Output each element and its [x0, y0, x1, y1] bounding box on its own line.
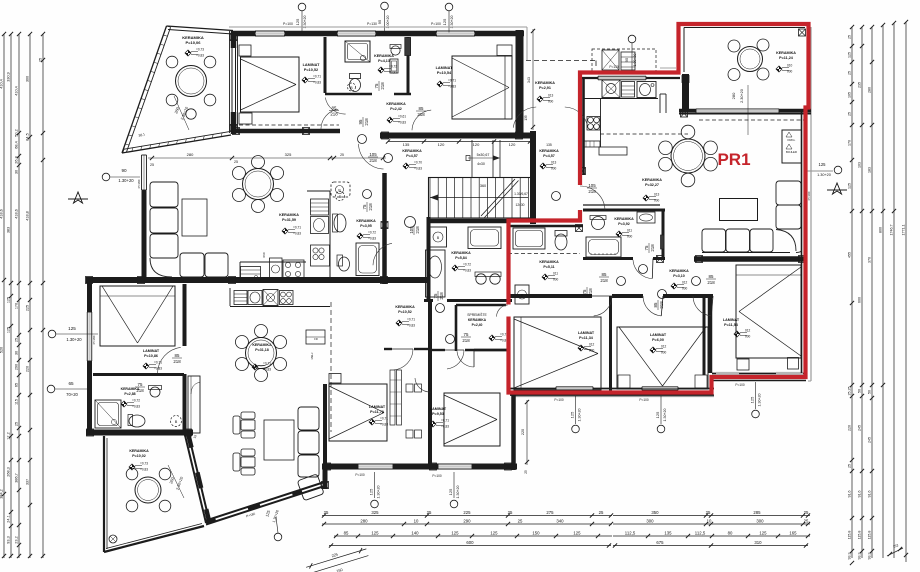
lu basin — [334, 214, 346, 232]
svg-text:520: 520 — [0, 347, 4, 353]
BL kitchen counter — [230, 306, 330, 308]
svg-text:P=2,91: P=2,91 — [539, 86, 551, 90]
door arc storage-red — [497, 305, 508, 317]
hatch — [303, 128, 310, 135]
stove — [602, 80, 620, 98]
tub left bath — [468, 227, 501, 249]
radiator dark — [405, 38, 411, 56]
svg-text:011: 011 — [627, 229, 632, 233]
svg-text:012: 012 — [589, 343, 595, 347]
BL bedroom bed — [100, 286, 175, 346]
BM bed2 elev — [430, 419, 449, 429]
svg-text:060: 060 — [262, 252, 266, 257]
svg-text:75: 75 — [374, 83, 379, 88]
svg-text:218: 218 — [417, 112, 425, 117]
svg-text:1.30+20: 1.30+20 — [578, 408, 582, 421]
BL dining label — [252, 343, 272, 352]
PR1 wc elev — [542, 272, 559, 282]
svg-text:125: 125 — [848, 52, 852, 58]
hatch — [579, 168, 586, 175]
hall elev — [387, 115, 406, 125]
svg-text:115: 115 — [15, 399, 19, 405]
svg-text:000: 000 — [551, 167, 557, 171]
east wall PR1 inner black — [801, 111, 803, 373]
svg-text:410,4: 410,4 — [0, 79, 4, 89]
svg-text:125: 125 — [451, 531, 459, 536]
terrace top-left walls — [167, 26, 234, 31]
svg-text:384,2: 384,2 — [0, 489, 4, 499]
svg-text:000: 000 — [787, 70, 793, 74]
hob 4 circles — [588, 117, 594, 123]
bedroom A bed — [241, 57, 300, 112]
svg-text:=0,73: =0,73 — [140, 462, 148, 466]
svg-text:P=2,40: P=2,40 — [472, 323, 483, 327]
bath BL north wall — [93, 373, 184, 376]
BL bedroom elev — [143, 361, 162, 371]
lu toilet — [339, 257, 350, 271]
hatch — [233, 128, 240, 135]
svg-text:125: 125 — [655, 411, 660, 418]
svg-text:12x30: 12x30 — [516, 203, 525, 207]
svg-text:360: 360 — [480, 184, 486, 188]
svg-text:P=100: P=100 — [432, 474, 442, 478]
black wall next to red x583 — [582, 77, 585, 175]
svg-text:220: 220 — [848, 425, 852, 431]
svg-text:125: 125 — [7, 297, 11, 303]
wall x704 — [703, 296, 706, 375]
door label 75 leftbath — [433, 291, 444, 301]
ks fridge B — [336, 192, 345, 201]
window top-1 P=100 — [255, 31, 285, 36]
bedroom A nightstands — [239, 45, 251, 56]
svg-text:P=10,54: P=10,54 — [437, 71, 452, 75]
BM bed1 elev — [369, 417, 388, 427]
living label — [642, 178, 662, 187]
svg-text:012: 012 — [745, 329, 751, 333]
PR1 dining table — [671, 139, 705, 173]
cabinet grid — [621, 52, 635, 70]
svg-text:337: 337 — [26, 479, 30, 485]
svg-text:25: 25 — [508, 510, 513, 515]
svg-text:30: 30 — [15, 170, 19, 174]
bottom-left diagonal dimension — [305, 544, 371, 572]
door label 85 BLbed — [172, 353, 182, 364]
svg-text:1.30+20: 1.30+20 — [377, 485, 381, 498]
bottom dimension rows left group — [322, 510, 613, 518]
BL bath basin — [150, 387, 160, 397]
lu door circle — [363, 190, 372, 199]
svg-text:330,9: 330,9 — [7, 72, 11, 82]
svg-text:218: 218 — [136, 388, 144, 393]
svg-text:25: 25 — [706, 510, 711, 515]
svg-text:000: 000 — [627, 235, 633, 239]
svg-text:120: 120 — [473, 142, 480, 147]
svg-text:95: 95 — [624, 57, 629, 62]
window west — [87, 312, 92, 361]
hall457b elev — [540, 161, 557, 171]
svg-text:125: 125 — [759, 531, 767, 536]
svg-text:1.30+20: 1.30+20 — [758, 393, 762, 406]
svg-text:=0,71: =0,71 — [407, 318, 415, 322]
left upper bath label — [356, 219, 376, 228]
BL dining elev — [252, 362, 271, 372]
svg-text:P=180: P=180 — [137, 179, 141, 188]
svg-text:125: 125 — [848, 183, 852, 189]
left sofa — [150, 182, 228, 278]
closet strip — [659, 94, 661, 113]
left living label — [279, 213, 299, 222]
svg-text:85: 85 — [344, 531, 349, 536]
svg-text:383: 383 — [7, 227, 11, 233]
svg-text:600: 600 — [858, 297, 862, 303]
svg-text:91,6: 91,6 — [848, 491, 852, 498]
wall x610 — [609, 296, 612, 392]
terrace BL label — [129, 449, 149, 458]
door arc right bath — [633, 259, 653, 279]
BL boiler — [171, 416, 182, 427]
svg-text:25: 25 — [340, 153, 344, 157]
svg-text:75: 75 — [433, 293, 438, 298]
svg-text:P=100: P=100 — [639, 398, 649, 402]
red door gap storage — [506, 305, 511, 317]
BLk sink grid — [234, 291, 247, 305]
staircase — [429, 178, 533, 219]
svg-text:418,6: 418,6 — [0, 209, 4, 219]
svg-text:125: 125 — [448, 488, 453, 495]
left rug — [182, 199, 207, 236]
svg-text:800: 800 — [879, 227, 883, 233]
window/door west — [142, 155, 147, 190]
svg-text:105: 105 — [848, 92, 852, 98]
svg-text:=0,83: =0,83 — [368, 237, 376, 241]
svg-text:P=2,88: P=2,88 — [124, 392, 135, 396]
svg-text:340: 340 — [556, 519, 564, 524]
hatch — [381, 222, 388, 229]
bedroom mid wall y350 — [430, 349, 445, 351]
svg-text:70+20: 70+20 — [66, 392, 78, 397]
svg-text:26,8: 26,8 — [15, 156, 19, 163]
svg-text:P=6,00: P=6,00 — [652, 338, 664, 342]
svg-text:75: 75 — [644, 245, 649, 250]
svg-text:125: 125 — [7, 327, 11, 333]
svg-text:P=11,34: P=11,34 — [579, 336, 594, 340]
dashed line kitchen — [600, 133, 688, 135]
PR1 wc dashes — [508, 253, 580, 255]
bedroom3 label — [578, 331, 595, 340]
svg-text:300: 300 — [26, 76, 30, 82]
storage elev — [489, 333, 508, 343]
svg-text:B: B — [521, 293, 523, 297]
svg-text:P=10,52: P=10,52 — [304, 68, 318, 72]
svg-text:1.30+20: 1.30+20 — [66, 337, 82, 342]
svg-text:25: 25 — [15, 422, 19, 426]
svg-text:25: 25 — [150, 163, 154, 167]
svg-text:25: 25 — [848, 71, 852, 75]
bedroom1 bed — [736, 265, 801, 358]
svg-text:25: 25 — [15, 338, 19, 342]
svg-text:325: 325 — [371, 510, 379, 515]
svg-text:P=31,18: P=31,18 — [255, 348, 269, 352]
hatch — [799, 256, 806, 263]
top dim marker 95/100+20 — [381, 2, 389, 10]
terrace TL table — [176, 66, 207, 97]
svg-text:000: 000 — [553, 278, 559, 282]
svg-text:75: 75 — [138, 382, 143, 387]
svg-text:183: 183 — [868, 167, 872, 173]
svg-text:=0,71: =0,71 — [380, 417, 388, 421]
PR1 wc label — [539, 260, 559, 269]
svg-text:P=10,06: P=10,06 — [185, 40, 201, 45]
svg-text:25: 25 — [848, 464, 852, 468]
BM bed1 label — [369, 405, 386, 414]
svg-text:95: 95 — [358, 119, 363, 124]
svg-text:P=3,92: P=3,92 — [618, 222, 630, 226]
svg-text:125: 125 — [371, 531, 379, 536]
terrace TL chairs — [166, 56, 178, 68]
svg-text:17,2: 17,2 — [7, 432, 11, 439]
left living elev — [282, 226, 301, 236]
hall elev 310 — [671, 281, 688, 291]
svg-text:600: 600 — [466, 540, 474, 545]
svg-text:93,3: 93,3 — [7, 536, 11, 543]
svg-text:150: 150 — [532, 531, 540, 536]
svg-text:290: 290 — [15, 364, 19, 370]
svg-text:=0,83: =0,83 — [132, 405, 140, 409]
hatch — [505, 463, 512, 470]
ks stove — [311, 245, 330, 266]
svg-text:125: 125 — [570, 411, 575, 418]
svg-text:=0,72: =0,72 — [132, 399, 140, 403]
door arc bedroom mid — [445, 350, 464, 369]
svg-text:25: 25 — [848, 112, 852, 116]
right bath walls — [583, 209, 665, 212]
lu tub — [356, 243, 379, 276]
svg-text:000: 000 — [589, 349, 595, 353]
PR1 wc washer — [515, 285, 529, 304]
svg-text:25,25: 25,25 — [848, 387, 852, 396]
svg-text:2.30+20: 2.30+20 — [740, 89, 744, 103]
wall x384 corridor — [382, 173, 387, 284]
hall label 310 — [669, 269, 689, 278]
kitchen counter edge — [584, 98, 658, 100]
svg-text:1.30+20: 1.30+20 — [118, 178, 134, 183]
left bath elev — [452, 263, 471, 273]
svg-text:=0,83: =0,83 — [196, 54, 204, 58]
svg-text:KERAMIKA: KERAMIKA — [402, 149, 422, 153]
svg-text:=0,83: =0,83 — [463, 269, 471, 273]
door label 75 BLbath — [135, 382, 145, 393]
terrace TR left wall — [682, 74, 689, 110]
kc hob — [283, 260, 304, 279]
svg-text:50,2: 50,2 — [15, 129, 19, 136]
svg-text:P=32,27: P=32,27 — [645, 183, 659, 187]
svg-text:75: 75 — [464, 332, 469, 337]
svg-text:455: 455 — [848, 252, 852, 258]
svg-text:170: 170 — [15, 303, 19, 309]
svg-text:=0,83: =0,83 — [140, 468, 148, 472]
svg-text:=0,72: =0,72 — [463, 263, 471, 267]
BM bed1 — [329, 384, 387, 441]
BL wardrobe — [188, 376, 200, 433]
svg-text:KERAMIKA: KERAMIKA — [395, 305, 415, 309]
counter shelf — [584, 141, 600, 147]
svg-text:225: 225 — [26, 305, 30, 311]
svg-text:=0,71: =0,71 — [448, 79, 456, 83]
svg-text:P=100: P=100 — [283, 22, 293, 26]
svg-text:5x30,67: 5x30,67 — [477, 153, 490, 157]
svg-text:150: 150 — [336, 568, 343, 572]
svg-text:290: 290 — [463, 519, 471, 524]
terrace TR label — [776, 51, 796, 60]
svg-text:P=2,42: P=2,42 — [390, 107, 402, 111]
svg-text:013: 013 — [551, 161, 557, 165]
svg-text:P=100: P=100 — [735, 383, 745, 387]
hall wall y205 (bath top) — [583, 204, 660, 206]
svg-text:P=11,54: P=11,54 — [724, 323, 739, 327]
bedroom3 bed — [514, 317, 601, 390]
door arc entry — [513, 107, 536, 128]
svg-text:B: B — [175, 420, 178, 424]
bedroom1 label — [723, 318, 740, 327]
svg-text:013: 013 — [548, 94, 554, 98]
door arc PR1 entry — [580, 186, 605, 210]
svg-text:115,8: 115,8 — [848, 531, 852, 540]
svg-text:310: 310 — [754, 540, 762, 545]
svg-text:=0,61: =0,61 — [398, 115, 406, 119]
svg-text:280: 280 — [360, 519, 368, 524]
svg-text:245: 245 — [858, 425, 862, 431]
svg-text:115,8: 115,8 — [858, 531, 862, 540]
window top-2 P=130 — [337, 31, 376, 36]
svg-text:218: 218 — [659, 301, 664, 309]
BL bedroom label — [143, 349, 160, 358]
toilet top — [350, 79, 361, 92]
hatch — [324, 463, 331, 470]
svg-text:25: 25 — [804, 519, 809, 524]
top dim marker 125/130+20 b — [445, 3, 453, 11]
stair upper lines — [471, 140, 473, 177]
door arc b3 — [592, 296, 612, 316]
svg-text:300: 300 — [646, 519, 654, 524]
svg-text:235: 235 — [858, 82, 862, 88]
svg-text:170: 170 — [848, 140, 852, 146]
svg-text:=0,83: =0,83 — [407, 324, 415, 328]
svg-text:MELJ: MELJ — [310, 352, 314, 359]
svg-text:85: 85 — [419, 106, 424, 111]
closet FRIG — [782, 130, 802, 163]
svg-text:P=5,84: P=5,84 — [455, 256, 467, 260]
svg-text:84,5: 84,5 — [26, 133, 30, 140]
door arc storage — [457, 350, 474, 367]
dim 220 vertical — [526, 400, 528, 465]
svg-text:P=180: P=180 — [92, 335, 96, 344]
north arrow right — [827, 183, 847, 194]
svg-text:218: 218 — [415, 226, 420, 234]
svg-text:P=10,52: P=10,52 — [398, 310, 412, 314]
bath P584 south wall — [424, 299, 433, 302]
svg-text:85: 85 — [653, 302, 658, 307]
svg-text:343: 343 — [527, 77, 531, 83]
bottom dimension rows right group — [613, 510, 810, 518]
svg-text:85: 85 — [709, 274, 714, 279]
BL bath shower — [95, 400, 121, 428]
svg-text:218: 218 — [368, 203, 373, 211]
door label 75 rightbath — [644, 243, 655, 253]
right bath radiator — [661, 235, 664, 249]
svg-text:011: 011 — [553, 272, 558, 276]
bath P584 west wall — [427, 217, 431, 302]
door label 85 b3 — [599, 272, 609, 283]
door label 105 kitchen — [368, 152, 378, 163]
terrace BL table — [135, 477, 161, 503]
west wall x89 — [87, 280, 92, 312]
svg-text:KERAMIKA: KERAMIKA — [129, 449, 149, 453]
door arc lu bath — [373, 243, 392, 265]
BL dining table — [246, 338, 277, 369]
svg-text:25: 25 — [848, 35, 852, 39]
svg-text:1.30/6,67: 1.30/6,67 — [514, 192, 528, 196]
PR1 wc toilet — [555, 234, 567, 250]
hatch — [576, 225, 583, 232]
svg-text:50: 50 — [868, 390, 872, 394]
washer left bath — [430, 227, 447, 247]
svg-text:BOJLER: BOJLER — [786, 150, 797, 154]
dim row under terrace — [148, 157, 335, 159]
right dimension lines — [851, 27, 853, 558]
bedroom3 elev — [578, 343, 595, 353]
svg-text:370: 370 — [868, 257, 872, 263]
svg-text:000: 000 — [661, 351, 667, 355]
door circles hall — [617, 277, 626, 286]
svg-text:50: 50 — [858, 389, 862, 393]
hatch — [430, 463, 437, 470]
svg-text:125: 125 — [490, 531, 498, 536]
dashed line x331 — [330, 302, 332, 432]
door arc b1 — [693, 296, 713, 316]
door circle PR1 — [552, 192, 561, 201]
door label 95 — [358, 117, 369, 127]
svg-text:275: 275 — [546, 510, 554, 515]
svg-text:KERAMIKA: KERAMIKA — [279, 213, 299, 217]
east wall of top rooms x519 — [516, 30, 524, 134]
BM bed2 label — [430, 407, 447, 416]
sofa PR1 — [702, 181, 802, 253]
PR1 wc shower — [513, 228, 545, 249]
svg-text:280: 280 — [187, 152, 194, 157]
right bath basin — [592, 217, 605, 230]
svg-text:268,3: 268,3 — [7, 467, 11, 477]
hatch — [382, 132, 389, 139]
door label 85 b2 — [653, 300, 664, 310]
right bath elev — [616, 229, 633, 239]
svg-text:125: 125 — [750, 396, 755, 403]
hatch — [657, 256, 664, 263]
hatch — [322, 482, 329, 489]
svg-text:P=100: P=100 — [431, 22, 441, 26]
svg-text:P=100: P=100 — [355, 473, 365, 477]
window s1 — [556, 387, 593, 390]
hall457b label — [539, 149, 559, 158]
door arc kitchen — [359, 144, 384, 169]
svg-text:85: 85 — [175, 353, 180, 358]
svg-text:KERAMIKA: KERAMIKA — [642, 178, 662, 182]
svg-text:4x30: 4x30 — [477, 162, 485, 166]
svg-text:23,2: 23,2 — [15, 536, 19, 543]
svg-text:135: 135 — [403, 142, 410, 147]
cabinet small — [390, 59, 398, 73]
svg-text:KERAMIKA: KERAMIKA — [468, 318, 487, 322]
svg-text:93,3: 93,3 — [858, 553, 862, 560]
